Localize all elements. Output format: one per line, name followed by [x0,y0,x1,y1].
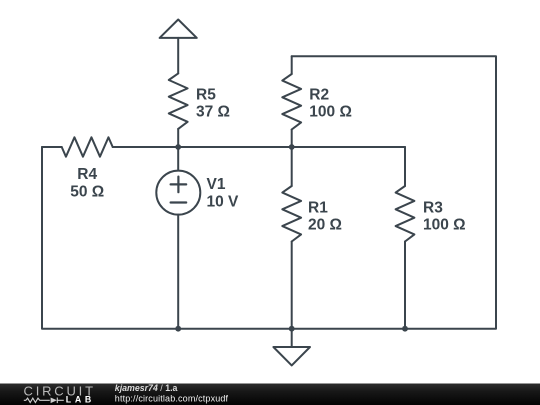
svg-text:R5: R5 [196,87,216,104]
svg-text:LAB: LAB [66,395,95,405]
svg-text:10 V: 10 V [207,193,240,210]
svg-text:R3: R3 [423,199,443,216]
svg-text:20 Ω: 20 Ω [308,216,342,233]
svg-text:R2: R2 [309,87,329,104]
svg-text:R1: R1 [308,199,328,216]
svg-text:R4: R4 [77,166,97,183]
svg-text:100 Ω: 100 Ω [423,216,466,233]
svg-text:kjamesr74 / 1.a: kjamesr74 / 1.a [115,383,178,393]
svg-text:37 Ω: 37 Ω [196,104,230,121]
svg-text:50 Ω: 50 Ω [70,183,104,200]
svg-text:http://circuitlab.com/ctpxudf: http://circuitlab.com/ctpxudf [115,393,229,403]
svg-text:100 Ω: 100 Ω [309,104,352,121]
svg-text:V1: V1 [207,176,226,193]
